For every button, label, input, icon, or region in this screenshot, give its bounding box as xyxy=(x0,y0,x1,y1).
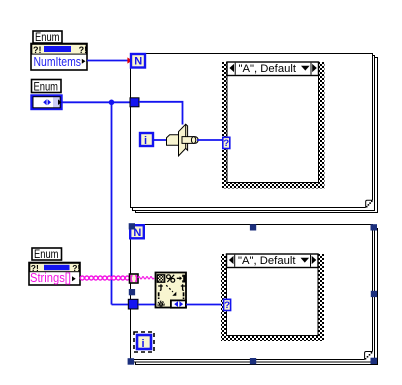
wire: enum2 to junction and tunnel of loop 1 xyxy=(63,102,131,304)
wire: strings array (coiled) to tunnel xyxy=(80,276,129,280)
case 1 selector terminal ? xyxy=(223,137,230,149)
wire: index icon to case selector xyxy=(197,139,223,141)
for-loop frame 1 front sheet with folded corner xyxy=(131,54,373,208)
enum constant 1 label "Enum" xyxy=(33,31,62,44)
wire: scan icon to case 2 selector xyxy=(186,304,224,306)
selection handle middle-left xyxy=(129,289,135,295)
selection handle bottom-middle xyxy=(250,358,256,364)
svg-text:N: N xyxy=(134,56,142,68)
for-loop frame 2 back sheet xyxy=(133,227,378,365)
svg-text:NumItems: NumItems xyxy=(34,54,82,69)
svg-text:Strings[]: Strings[] xyxy=(30,270,71,285)
wire: i terminal to index icon xyxy=(154,139,168,141)
tunnel on loop2 left border (enum wire) xyxy=(128,299,138,309)
loop 1 count terminal N xyxy=(131,54,145,68)
selection handle top-left xyxy=(129,223,135,229)
scan from string icon xyxy=(156,273,187,308)
case structure 1 border xyxy=(222,62,325,189)
svg-text:"A", Default: "A", Default xyxy=(239,63,297,75)
case 2 selector terminal ? xyxy=(224,299,231,311)
case structure 2 border xyxy=(221,254,324,341)
selection handle middle-right xyxy=(371,291,377,297)
index array icon xyxy=(167,124,199,156)
svg-text:?!: ?! xyxy=(72,263,80,273)
red coercion arrow at N terminal xyxy=(127,57,132,63)
tunnel on loop1 left border xyxy=(130,98,139,107)
svg-text:?: ? xyxy=(223,138,229,149)
enum constant 3 body (Strings[]) xyxy=(29,263,80,286)
loop 2 count terminal N xyxy=(130,225,144,239)
enum constant 2 label "Enum" xyxy=(32,80,62,94)
svg-text:i: i xyxy=(144,135,147,147)
selection handle top-middle xyxy=(250,224,256,230)
wire: string element (wavy) tunnel to scan icon xyxy=(138,277,154,279)
case structure 2 header xyxy=(227,254,319,268)
auto-indexing tunnel [] on loop2 left border xyxy=(130,274,139,283)
for-loop frame 2 front sheet with folded corner xyxy=(131,225,373,360)
loop 1 iteration terminal i xyxy=(140,133,153,147)
svg-text:i: i xyxy=(142,338,145,350)
svg-text:Enum: Enum xyxy=(34,82,59,94)
svg-text:"A", Default: "A", Default xyxy=(238,255,296,267)
svg-text:Enum: Enum xyxy=(34,249,59,261)
case structure 1 header xyxy=(227,62,319,76)
wire: tunnel to scan icon input xyxy=(138,304,156,306)
wire: enum1 to loop count N xyxy=(87,60,128,62)
enum constant 1 body (NumItems) xyxy=(31,44,87,71)
enum constant 3 label "Enum" xyxy=(32,248,62,261)
wire: tunnel to index icon (inside loop1) xyxy=(139,102,183,125)
enum constant 2 body xyxy=(32,96,62,110)
selection handle bottom-right xyxy=(371,358,378,364)
for-loop frame 1 back sheet xyxy=(133,56,378,213)
loop 2 iteration terminal i (selected, marching ants) xyxy=(134,332,154,352)
svg-text:?: ? xyxy=(224,300,230,311)
selection handle bottom-left xyxy=(128,358,135,365)
svg-text:Enum: Enum xyxy=(35,32,60,44)
selection handle top-right xyxy=(371,224,378,230)
wire junction dot xyxy=(109,100,115,106)
